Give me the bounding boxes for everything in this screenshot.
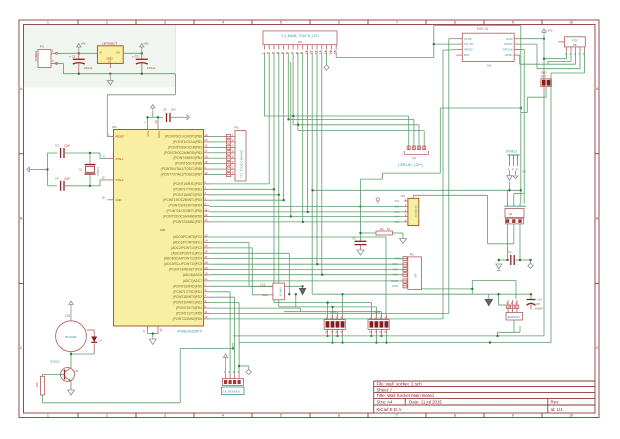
module U5 level shifter <box>261 283 285 300</box>
svg-text:3: 3 <box>271 52 275 54</box>
module U4 ESP-01 <box>456 27 520 68</box>
svg-text:104: 104 <box>171 108 176 112</box>
svg-text:12: 12 <box>205 315 208 319</box>
svg-text:(ADC5/SCL/PCINT13)PC5: (ADC5/SCL/PCINT13)PC5 <box>164 262 202 266</box>
crystal X1 <box>79 153 100 186</box>
ground power supply <box>107 74 113 85</box>
svg-text:17: 17 <box>205 149 208 153</box>
svg-text:+ C1: + C1 <box>69 55 76 59</box>
svg-text:5: 5 <box>281 52 285 54</box>
wire SW1 down <box>521 91 546 113</box>
svg-text:R2: R2 <box>380 227 384 231</box>
svg-text:(ADC1/PCINT9)PC1: (ADC1/PCINT9)PC1 <box>173 240 202 244</box>
power flag +5V <box>140 44 144 54</box>
svg-text:ULN2003: ULN2003 <box>414 205 418 217</box>
svg-text:13: 13 <box>319 50 323 54</box>
svg-text:25: 25 <box>205 244 208 248</box>
wire R3 bottom rail <box>42 348 233 402</box>
svg-text:22pF: 22pF <box>64 176 70 180</box>
ground R2 <box>400 239 407 244</box>
svg-text:GND: GND <box>506 37 512 41</box>
title block <box>374 381 595 413</box>
wire emitter ground <box>70 382 72 391</box>
svg-text:(PCINT20/XCK/T0)PD4: (PCINT20/XCK/T0)PD4 <box>169 204 203 208</box>
connector P7 relay12V <box>398 145 429 167</box>
svg-text:(PCINT0/CLKO/ICP1)PB0: (PCINT0/CLKO/ICP1)PB0 <box>165 135 202 139</box>
ground crystal <box>27 167 35 172</box>
svg-text:(PCINT20/T0)PD4: (PCINT20/T0)PD4 <box>176 306 202 310</box>
svg-text:2: 2 <box>106 414 108 418</box>
MCU left pin XTAL1 <box>103 154 124 160</box>
wire VOUT <box>123 52 142 54</box>
wire DIP bottoms <box>328 334 387 343</box>
wire buzzer loop <box>86 330 94 354</box>
wire XTAL2 <box>64 180 108 186</box>
svg-text:13: 13 <box>205 218 208 222</box>
svg-text:XTAL2: XTAL2 <box>116 178 125 182</box>
svg-text:Q2: Q2 <box>75 369 79 373</box>
svg-text:P3: P3 <box>235 126 239 130</box>
ground diamond P9 <box>246 369 251 374</box>
selection tint region top-left <box>24 25 176 88</box>
MCU left pin GND <box>102 196 122 202</box>
svg-text:12: 12 <box>205 213 208 217</box>
svg-text:27: 27 <box>205 255 208 259</box>
svg-text:4: 4 <box>276 52 280 54</box>
svg-text:GN: GN <box>522 170 526 174</box>
svg-text:Sheet: /: Sheet: / <box>377 387 393 392</box>
svg-text:P8: P8 <box>573 43 577 47</box>
svg-text:ESP-01: ESP-01 <box>477 27 489 31</box>
power flag P9 <box>223 354 227 374</box>
svg-text:2.4_MAIN_TOUCH_LCD: 2.4_MAIN_TOUCH_LCD <box>281 34 319 38</box>
svg-text:(PCINT17/TXD)PD1: (PCINT17/TXD)PD1 <box>173 290 202 294</box>
ground diamond LCD <box>324 65 329 70</box>
capacitor C4 <box>55 176 70 191</box>
svg-text:Date: 11 jul 2015: Date: 11 jul 2015 <box>409 400 442 405</box>
wire VCC top of MCU <box>148 112 164 124</box>
svg-text:+9V: +9V <box>81 42 86 46</box>
svg-text:U4: U4 <box>487 64 491 68</box>
regulator U6 AMS1117 <box>506 300 523 320</box>
svg-text:C3: C3 <box>55 144 59 148</box>
svg-text:12: 12 <box>314 50 318 54</box>
svg-text:1A_MODULE: 1A_MODULE <box>223 390 240 394</box>
DIP switch SW2 <box>324 310 345 334</box>
svg-text:9: 9 <box>300 52 304 54</box>
wire bus to P7 <box>264 116 424 145</box>
svg-text:(PCINT4/MISO)PB4: (PCINT4/MISO)PB4 <box>173 156 202 160</box>
svg-text:5: 5 <box>280 414 282 418</box>
svg-text:15: 15 <box>205 138 208 142</box>
svg-text:GND: GND <box>392 284 398 288</box>
svg-text:IC1: IC1 <box>112 125 117 129</box>
svg-text:NRF24: NRF24 <box>279 288 283 297</box>
svg-text:4: 4 <box>222 21 224 25</box>
svg-text:C7: C7 <box>508 250 512 254</box>
svg-text:5: 5 <box>280 21 282 25</box>
svg-text:1: 1 <box>47 21 49 25</box>
wire base <box>42 375 64 377</box>
svg-text:SYM12: SYM12 <box>506 150 517 154</box>
svg-text:9: 9 <box>512 21 514 25</box>
svg-text:(PCINT5/SCK)PB5: (PCINT5/SCK)PB5 <box>175 162 202 166</box>
wire MCU G2 rows to U3 <box>210 206 405 222</box>
capacitor C6 <box>352 232 367 250</box>
svg-text:(PCINT2/SS/OC1B)PB2: (PCINT2/SS/OC1B)PB2 <box>168 145 202 149</box>
svg-text:6: 6 <box>338 21 340 25</box>
svg-text:(PCINT14/RESET)PC6: (PCINT14/RESET)PC6 <box>169 268 202 272</box>
svg-text:KiCad E.D.A.: KiCad E.D.A. <box>377 407 403 412</box>
svg-text:2N2222: 2N2222 <box>50 360 60 364</box>
wire DIP feed staircase <box>274 294 386 314</box>
svg-text:6: 6 <box>338 414 340 418</box>
svg-text:24: 24 <box>205 239 208 243</box>
svg-text:+ C2: + C2 <box>132 55 139 59</box>
svg-text:P4: P4 <box>298 40 302 44</box>
svg-text:(ADC6)ADC6: (ADC6)ADC6 <box>183 273 202 277</box>
svg-text:VI: VI <box>100 51 103 55</box>
svg-text:URXD: URXD <box>505 53 513 57</box>
svg-text:U3: U3 <box>401 194 405 198</box>
svg-text:VO: VO <box>116 51 120 55</box>
ground Q2 <box>68 390 75 395</box>
svg-text:(PCINT7/XTAL2/TOSC2)PB7: (PCINT7/XTAL2/TOSC2)PB7 <box>161 173 203 177</box>
wire ESP right <box>520 39 544 204</box>
svg-text:(PCINT21/T1)PD5: (PCINT21/T1)PD5 <box>176 312 202 316</box>
svg-text:9: 9 <box>512 414 514 418</box>
svg-text:15: 15 <box>329 50 333 54</box>
svg-text:1K: 1K <box>387 227 390 231</box>
ground MCU <box>149 339 156 345</box>
svg-text:10: 10 <box>205 171 208 175</box>
svg-text:LM7805CT: LM7805CT <box>102 42 117 46</box>
svg-text:K3: K3 <box>509 212 513 216</box>
wire MCU gnd join <box>148 334 159 339</box>
capacitor C5 <box>163 108 182 123</box>
svg-text:(ADC3/PCINT11)PC3: (ADC3/PCINT11)PC3 <box>171 251 202 255</box>
svg-text:Title: Wall Socket Main Board: Title: Wall Socket Main Board <box>377 393 435 398</box>
connector P4 LCD <box>262 31 338 54</box>
svg-text:GPIO0: GPIO0 <box>464 48 473 52</box>
wire MCU G4 rows <box>210 39 449 374</box>
svg-text:14: 14 <box>324 50 328 54</box>
wire crystal left <box>35 153 58 186</box>
svg-text:(PCINT16/RXD)PD0: (PCINT16/RXD)PD0 <box>173 182 202 186</box>
svg-text:File: wall_socket_2.sch: File: wall_socket_2.sch <box>377 382 423 387</box>
svg-text:ISP: ISP <box>414 273 418 278</box>
svg-text:(PCINT18/INT0)PD2: (PCINT18/INT0)PD2 <box>173 295 202 299</box>
wire right rails <box>521 26 551 343</box>
wire P8 routing <box>520 52 585 74</box>
svg-text:(PCINT19/INT1)PD3: (PCINT19/INT1)PD3 <box>173 301 202 305</box>
regulator U1 LM7805 <box>97 42 123 68</box>
wire bottom rails <box>233 336 551 343</box>
svg-text:19: 19 <box>205 160 208 164</box>
svg-text:Rev:: Rev: <box>551 400 560 405</box>
svg-text:IN5: IN5 <box>395 220 400 224</box>
wire AMS net <box>313 281 532 306</box>
ground C7 left <box>496 264 502 271</box>
ground diamond C7 right <box>528 263 533 268</box>
svg-text:(PCINT1/OC1A)PB1: (PCINT1/OC1A)PB1 <box>173 140 202 144</box>
svg-text:22: 22 <box>205 277 208 281</box>
power flag +5V MCU <box>151 105 155 112</box>
svg-text:L13: L13 <box>261 283 266 287</box>
svg-text:(PCINT6/XTAL1/TOSC1)PB6: (PCINT6/XTAL1/TOSC1)PB6 <box>161 167 203 171</box>
svg-text:(PCINT22/AIN0)PD6: (PCINT22/AIN0)PD6 <box>173 317 203 321</box>
svg-text:LS1: LS1 <box>65 314 71 318</box>
transistor Q2 <box>50 360 79 382</box>
wire K3 bottom <box>413 195 530 263</box>
svg-text:+3V3: +3V3 <box>546 29 553 33</box>
svg-text:18: 18 <box>205 155 208 159</box>
svg-text:P7: P7 <box>413 157 417 161</box>
svg-text:U1: U1 <box>108 60 112 64</box>
MCU right pins group3 PC0-ADC6 <box>164 233 210 277</box>
svg-text:(ADC7)ADC7: (ADC7)ADC7 <box>183 279 202 283</box>
svg-text:P2: P2 <box>410 253 414 257</box>
diode D3 <box>91 337 102 343</box>
power flag buzzer <box>69 301 73 321</box>
svg-text:SW1: SW1 <box>541 71 547 75</box>
node junction C2 top <box>141 52 143 54</box>
svg-text:29: 29 <box>205 266 208 270</box>
connector P9 module <box>222 370 245 394</box>
wire AMS bottom <box>498 320 521 336</box>
svg-text:GND: GND <box>116 198 122 202</box>
svg-text:1: 1 <box>47 414 49 418</box>
svg-text:22: 22 <box>159 328 163 331</box>
connector P1 power input <box>34 45 58 68</box>
svg-text:AVCC: AVCC <box>157 131 161 138</box>
wire MCU G2 rows to LCD bundle <box>210 184 284 200</box>
svg-text:10: 10 <box>305 50 309 54</box>
svg-text:SW2: SW2 <box>330 310 337 314</box>
IC U3 driver <box>395 194 419 226</box>
svg-text:SW3: SW3 <box>374 310 381 314</box>
svg-text:(PCINT22/OC0A/AIN0)PD6: (PCINT22/OC0A/AIN0)PD6 <box>163 215 202 219</box>
svg-text:16MHz: 16MHz <box>96 167 100 176</box>
svg-text:GPIO16: GPIO16 <box>502 48 513 52</box>
svg-text:100uF: 100uF <box>147 66 156 70</box>
wire XTAL1 <box>64 153 108 159</box>
svg-text:7: 7 <box>396 21 398 25</box>
MCU right pins group4 <box>173 277 210 321</box>
svg-text:20: 20 <box>154 120 158 123</box>
wire ESP left <box>434 39 457 51</box>
capacitor C3 <box>55 144 70 159</box>
svg-text:FTDI: FTDI <box>572 38 578 42</box>
buzzer LS1 <box>56 314 87 352</box>
MCU bottom pins GND <box>142 326 163 334</box>
svg-text:C4: C4 <box>55 176 59 180</box>
svg-text:16: 16 <box>205 144 208 148</box>
MCU top pins VCC AVCC <box>143 120 161 138</box>
MCU left pin XTAL2 <box>102 176 125 182</box>
svg-text:UTXD: UTXD <box>464 37 472 41</box>
switch SW1 <box>541 71 552 91</box>
capacitor C1 <box>69 53 93 73</box>
ground AMS <box>485 300 492 306</box>
svg-text:(ADC2/PCINT10)PC2: (ADC2/PCINT10)PC2 <box>171 246 202 250</box>
svg-text:8: 8 <box>295 52 299 54</box>
svg-text:(PCINT3/OC2A/MOSI)PB3: (PCINT3/OC2A/MOSI)PB3 <box>164 151 202 155</box>
resistor R2 <box>361 227 404 239</box>
svg-text:Id: 1/1: Id: 1/1 <box>551 407 564 412</box>
svg-text:AMS1117: AMS1117 <box>507 315 520 319</box>
svg-text:11: 11 <box>310 50 314 54</box>
connector P8 FTDI <box>558 37 585 56</box>
svg-text:28: 28 <box>205 260 208 264</box>
svg-text:AVR: AVR <box>160 228 165 232</box>
svg-text:7: 7 <box>291 52 295 54</box>
svg-text:26: 26 <box>205 250 208 254</box>
svg-text:2: 2 <box>267 52 271 54</box>
svg-text:19: 19 <box>205 271 208 275</box>
MCU right pins group1 PB0-PB7 <box>161 133 210 177</box>
svg-text:14: 14 <box>205 133 208 137</box>
ground C5 <box>182 115 190 120</box>
svg-text:RST: RST <box>541 75 547 79</box>
svg-text:10K: 10K <box>35 382 39 387</box>
svg-text:(PCINT17/TXD)PD1: (PCINT17/TXD)PD1 <box>173 187 202 191</box>
wire staircase relay drive <box>361 50 521 319</box>
svg-text:(ADC0/PCINT8)PC0: (ADC0/PCINT8)PC0 <box>173 235 202 239</box>
svg-text:16: 16 <box>334 50 338 54</box>
svg-text:+5V: +5V <box>537 298 542 302</box>
capacitor C2 <box>132 53 156 73</box>
svg-text:7: 7 <box>396 414 398 418</box>
svg-text:(PCINT16/RXD)PD0: (PCINT16/RXD)PD0 <box>173 284 202 288</box>
svg-text:RESET: RESET <box>116 135 125 139</box>
MCU IC1 ATMEGA328 <box>112 125 204 334</box>
svg-text:C5: C5 <box>163 108 167 112</box>
svg-text:VCC: VCC <box>146 131 150 137</box>
relay K3 <box>504 204 526 224</box>
svg-text:Cap: Cap <box>263 293 268 297</box>
svg-text:TFT_TOUCH_BOARD: TFT_TOUCH_BOARD <box>239 150 243 178</box>
svg-text:ATMEGA328P-P: ATMEGA328P-P <box>177 330 203 334</box>
wire K2 <box>510 171 516 191</box>
ground arrow G4r2 <box>300 289 306 295</box>
svg-text:(PCINT19/OC2B/INT1)PD3: (PCINT19/OC2B/INT1)PD3 <box>163 198 202 202</box>
svg-text:(ADC4/SDA/PCINT12)PC4: (ADC4/SDA/PCINT12)PC4 <box>164 257 202 261</box>
svg-text:Size: A4: Size: A4 <box>377 400 394 405</box>
connector P3 TFT touch <box>225 126 247 181</box>
svg-text:IN3: IN3 <box>395 210 400 214</box>
capacitor C7 <box>508 250 514 265</box>
svg-text:1: 1 <box>262 52 266 54</box>
wire net y190 <box>313 189 521 191</box>
svg-text:GPIO2: GPIO2 <box>504 42 513 46</box>
wire GND rail power <box>56 63 175 73</box>
ground C6 <box>357 250 364 255</box>
MCU right pins group2 PD0-PD7 <box>163 180 209 224</box>
wire K3 top <box>508 190 525 203</box>
svg-text:IN1: IN1 <box>395 199 400 203</box>
svg-text:IN2: IN2 <box>395 204 400 208</box>
wire MCU G1 to P3 <box>210 137 225 175</box>
svg-text:3: 3 <box>164 414 166 418</box>
svg-text:10: 10 <box>569 414 573 418</box>
resistor R3 <box>35 376 44 395</box>
svg-text:220uF: 220uF <box>84 66 93 70</box>
MCU left pin RESET <box>107 132 125 138</box>
svg-text:D3: D3 <box>99 339 103 343</box>
svg-text:IN4: IN4 <box>395 215 400 219</box>
svg-text:C8: C8 <box>536 302 540 306</box>
node junction C1 top <box>78 52 80 54</box>
connector P2 ISP <box>391 253 421 290</box>
svg-text:2: 2 <box>106 21 108 25</box>
DIP switch SW3 <box>368 310 389 334</box>
svg-text:P1: P1 <box>40 45 44 49</box>
ground K2 <box>507 176 518 181</box>
wire MCU G3 rows <box>210 237 403 315</box>
svg-text:6: 6 <box>286 52 290 54</box>
svg-text:4: 4 <box>222 414 224 418</box>
svg-text:100uF: 100uF <box>535 307 544 311</box>
svg-text:X1: X1 <box>79 168 83 172</box>
wire gnd to MCU reset area <box>107 74 175 137</box>
connector K2 pins <box>508 159 518 171</box>
svg-text:23: 23 <box>205 233 208 237</box>
wire VIN top <box>58 52 98 54</box>
label SYM12 <box>506 150 526 174</box>
svg-text:BUZZER: BUZZER <box>65 335 76 339</box>
svg-text:(PCINT23/AIN1)PD7: (PCINT23/AIN1)PD7 <box>173 220 203 224</box>
wire LCD bundle verticals <box>264 26 520 307</box>
svg-text:8: 8 <box>454 21 456 25</box>
svg-text:10: 10 <box>569 21 573 25</box>
svg-text:+5V: +5V <box>144 42 149 46</box>
svg-text:RST: RST <box>464 53 470 57</box>
svg-text:(PCINT21/OC0B/T1)PD5: (PCINT21/OC0B/T1)PD5 <box>166 209 202 213</box>
svg-text:3: 3 <box>164 21 166 25</box>
svg-text:XTAL1: XTAL1 <box>116 157 125 161</box>
svg-text:10: 10 <box>102 176 105 180</box>
capacitor C8 <box>527 298 544 311</box>
wire rails corners <box>489 341 491 343</box>
svg-text:(PCINT18/INT0)PD2: (PCINT18/INT0)PD2 <box>173 193 202 197</box>
svg-text:18: 18 <box>102 196 105 200</box>
power flag U3 <box>376 198 379 204</box>
svg-text:8: 8 <box>454 414 456 418</box>
svg-text:22pF: 22pF <box>64 144 70 148</box>
svg-text:POWER: POWER <box>34 51 38 61</box>
svg-text:CH_PD: CH_PD <box>464 42 473 46</box>
power flag VCC1 <box>77 44 81 54</box>
svg-text:{+RELAY_12V+}: {+RELAY_12V+} <box>398 163 424 167</box>
power flag +3V3 <box>542 29 546 39</box>
